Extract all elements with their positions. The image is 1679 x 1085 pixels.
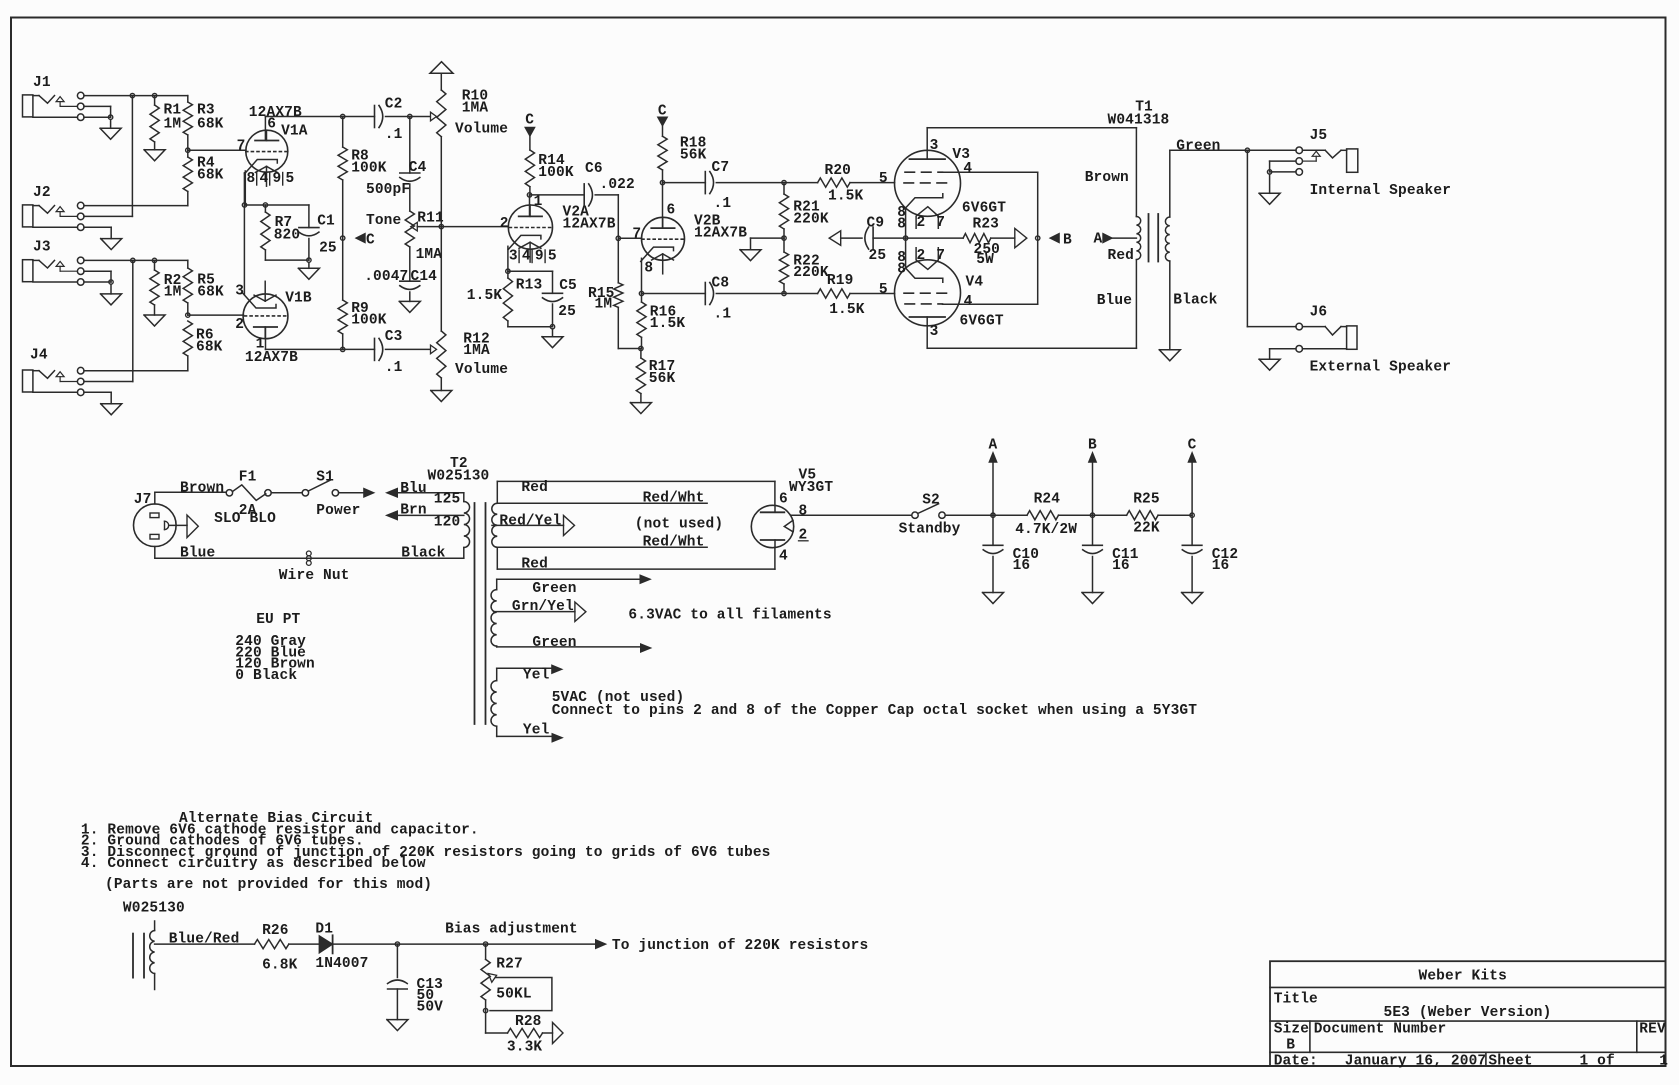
- svg-text:Yel: Yel: [523, 668, 550, 684]
- svg-text:56K: 56K: [680, 148, 707, 164]
- svg-text:.1: .1: [714, 307, 732, 323]
- svg-text:8: 8: [644, 261, 653, 277]
- svg-text:4: 4: [779, 549, 788, 565]
- svg-text:R20: R20: [825, 163, 852, 179]
- svg-text:6.8K: 6.8K: [262, 957, 298, 973]
- svg-text:500pF: 500pF: [366, 182, 410, 198]
- svg-text:3: 3: [930, 324, 939, 340]
- svg-text:16: 16: [1013, 558, 1031, 574]
- svg-text:3: 3: [930, 138, 939, 154]
- svg-text:Blue: Blue: [180, 546, 215, 562]
- svg-text:4: 4: [522, 249, 531, 265]
- svg-text:22K: 22K: [1133, 521, 1160, 537]
- svg-text:100K: 100K: [351, 161, 387, 177]
- svg-text:R19: R19: [827, 273, 854, 289]
- svg-text:2: 2: [500, 216, 509, 232]
- svg-text:(not used): (not used): [635, 516, 723, 532]
- svg-text:Brown: Brown: [1085, 170, 1129, 186]
- svg-text:8: 8: [247, 171, 256, 187]
- svg-text:25: 25: [869, 248, 887, 264]
- svg-text:R23: R23: [973, 217, 1000, 233]
- svg-text:3: 3: [235, 283, 244, 299]
- svg-text:1.5K: 1.5K: [650, 316, 686, 332]
- svg-text:3.3K: 3.3K: [507, 1039, 543, 1055]
- svg-text:Document Number: Document Number: [1314, 1022, 1447, 1038]
- svg-text:7: 7: [237, 138, 246, 154]
- svg-text:B: B: [1063, 232, 1072, 248]
- svg-text:Black: Black: [401, 546, 445, 562]
- svg-text:J7: J7: [134, 492, 152, 508]
- svg-text:12AX7B: 12AX7B: [245, 350, 298, 366]
- svg-text:SLO BLO: SLO BLO: [214, 511, 276, 527]
- svg-text:5W: 5W: [976, 252, 994, 268]
- svg-text:4: 4: [963, 161, 972, 177]
- svg-text:1MA: 1MA: [463, 343, 490, 359]
- svg-text:C: C: [525, 112, 534, 128]
- svg-text:1.5K: 1.5K: [829, 302, 865, 318]
- svg-text:Size: Size: [1274, 1022, 1309, 1038]
- svg-text:100K: 100K: [538, 165, 574, 181]
- svg-text:1M: 1M: [164, 117, 182, 133]
- svg-text:6: 6: [779, 492, 788, 508]
- svg-text:C9: C9: [867, 216, 885, 232]
- svg-text:1: 1: [534, 194, 543, 210]
- svg-text:1MA: 1MA: [416, 247, 443, 263]
- svg-text:V1A: V1A: [281, 124, 308, 140]
- svg-text:1MA: 1MA: [462, 100, 489, 116]
- svg-text:9: 9: [273, 171, 282, 187]
- svg-text:Red: Red: [521, 480, 548, 496]
- svg-text:R28: R28: [515, 1014, 542, 1030]
- svg-text:100K: 100K: [351, 313, 387, 329]
- svg-text:Brown: Brown: [180, 481, 224, 497]
- svg-text:J5: J5: [1310, 128, 1328, 144]
- svg-text:.1: .1: [714, 196, 732, 212]
- svg-text:9: 9: [535, 249, 544, 265]
- svg-text:25: 25: [558, 304, 576, 320]
- svg-text:7: 7: [936, 215, 945, 231]
- svg-text:1: 1: [1659, 1054, 1668, 1070]
- svg-text:6V6GT: 6V6GT: [962, 200, 1006, 216]
- svg-text:January 16, 2007: January 16, 2007: [1345, 1054, 1486, 1070]
- svg-text:1N4007: 1N4007: [315, 956, 368, 972]
- svg-text:16: 16: [1112, 558, 1130, 574]
- svg-text:Red/Yel: Red/Yel: [499, 514, 561, 530]
- svg-text:Power: Power: [316, 503, 360, 519]
- svg-text:Green: Green: [532, 581, 576, 597]
- svg-text:W025130: W025130: [123, 901, 185, 917]
- svg-text:Yel: Yel: [523, 723, 550, 739]
- svg-text:5: 5: [879, 282, 888, 298]
- svg-text:12AX7B: 12AX7B: [563, 216, 616, 232]
- svg-text:1.5K: 1.5K: [828, 188, 864, 204]
- svg-text:J1: J1: [33, 75, 51, 91]
- svg-text:5: 5: [548, 249, 557, 265]
- svg-text:.1: .1: [385, 127, 403, 143]
- svg-text:C3: C3: [385, 329, 403, 345]
- svg-text:2: 2: [235, 317, 244, 333]
- svg-text:8: 8: [897, 261, 906, 277]
- svg-text:1M: 1M: [164, 285, 182, 301]
- svg-text:7: 7: [632, 226, 641, 242]
- svg-text:50V: 50V: [417, 1000, 444, 1016]
- svg-text:68K: 68K: [197, 117, 224, 133]
- svg-text:Blue: Blue: [1097, 293, 1132, 309]
- svg-text:Volume: Volume: [455, 121, 508, 137]
- svg-text:Bias adjustment: Bias adjustment: [445, 922, 578, 938]
- svg-text:3: 3: [509, 249, 518, 265]
- svg-text:C5: C5: [559, 278, 577, 294]
- svg-text:.022: .022: [600, 177, 635, 193]
- svg-text:8: 8: [799, 503, 808, 519]
- svg-text:1.5K: 1.5K: [467, 288, 503, 304]
- svg-text:EU PT: EU PT: [256, 612, 300, 628]
- svg-text:4: 4: [964, 294, 973, 310]
- svg-text:R13: R13: [516, 277, 543, 293]
- svg-text:B: B: [1088, 437, 1097, 453]
- svg-text:J3: J3: [33, 240, 51, 256]
- svg-text:A: A: [1094, 231, 1103, 247]
- svg-text:C1: C1: [317, 214, 335, 230]
- svg-text:Wire Nut: Wire Nut: [279, 568, 350, 584]
- svg-text:J6: J6: [1310, 304, 1328, 320]
- svg-text:C: C: [1188, 437, 1197, 453]
- svg-text:R26: R26: [262, 923, 289, 939]
- svg-text:4.7K/2W: 4.7K/2W: [1015, 522, 1077, 538]
- svg-text:C14: C14: [411, 269, 438, 285]
- svg-text:56K: 56K: [649, 371, 676, 387]
- svg-text:C8: C8: [712, 275, 730, 291]
- svg-text:68K: 68K: [197, 167, 224, 183]
- svg-text:.1: .1: [385, 360, 403, 376]
- svg-text:7: 7: [936, 248, 945, 264]
- svg-text:.0047: .0047: [364, 269, 408, 285]
- svg-text:Title: Title: [1274, 992, 1318, 1008]
- svg-text:6V6GT: 6V6GT: [960, 314, 1004, 330]
- svg-text:Weber Kits: Weber Kits: [1419, 969, 1507, 985]
- svg-text:125: 125: [434, 492, 461, 508]
- svg-text:R27: R27: [496, 956, 523, 972]
- svg-text:Green: Green: [1176, 138, 1220, 154]
- svg-text:REV: REV: [1639, 1022, 1666, 1038]
- svg-text:1M: 1M: [595, 297, 613, 313]
- svg-text:J4: J4: [30, 348, 48, 364]
- svg-text:0 Black: 0 Black: [235, 668, 297, 684]
- svg-text:4: 4: [260, 171, 269, 187]
- svg-text:V4: V4: [966, 274, 984, 290]
- svg-text:5: 5: [286, 171, 295, 187]
- svg-text:C7: C7: [712, 160, 730, 176]
- svg-text:C4: C4: [409, 160, 427, 176]
- svg-text:50KL: 50KL: [496, 987, 531, 1003]
- svg-text:68K: 68K: [197, 285, 224, 301]
- svg-text:16: 16: [1212, 558, 1230, 574]
- svg-text:J2: J2: [33, 185, 51, 201]
- svg-text:R25: R25: [1133, 492, 1160, 508]
- svg-text:D1: D1: [315, 922, 333, 938]
- svg-text:A: A: [989, 437, 998, 453]
- svg-text:Red: Red: [521, 556, 548, 572]
- svg-text:220K: 220K: [793, 211, 829, 227]
- svg-text:5: 5: [879, 171, 888, 187]
- svg-text:Black: Black: [1173, 293, 1217, 309]
- svg-text:External Speaker: External Speaker: [1310, 359, 1451, 375]
- svg-text:Red/Wht: Red/Wht: [643, 491, 705, 507]
- svg-text:To junction of 220K resistors: To junction of 220K resistors: [612, 938, 868, 954]
- svg-text:W041318: W041318: [1108, 112, 1170, 128]
- svg-text:2: 2: [917, 248, 926, 264]
- svg-text:Connect to pins 2 and 8 of the: Connect to pins 2 and 8 of the Copper Ca…: [552, 703, 1198, 719]
- svg-text:Tone: Tone: [366, 213, 401, 229]
- svg-text:1 of: 1 of: [1580, 1054, 1615, 1070]
- svg-text:C2: C2: [385, 97, 403, 113]
- svg-text:B: B: [1286, 1038, 1295, 1054]
- svg-text:2: 2: [917, 215, 926, 231]
- svg-text:Blu: Blu: [400, 481, 427, 497]
- svg-text:4. Connect circuitry as descri: 4. Connect circuitry as described below: [81, 856, 426, 872]
- svg-text:Red/Wht: Red/Wht: [643, 535, 705, 551]
- svg-text:Red: Red: [1108, 248, 1135, 264]
- svg-text:C: C: [366, 232, 375, 248]
- svg-text:Brn: Brn: [400, 503, 427, 519]
- svg-text:Green: Green: [532, 635, 576, 651]
- svg-text:Volume: Volume: [455, 362, 508, 378]
- svg-text:S2: S2: [922, 492, 940, 508]
- svg-text:W025130: W025130: [428, 469, 490, 485]
- svg-text:R24: R24: [1034, 492, 1061, 508]
- svg-text:6: 6: [267, 117, 276, 133]
- svg-text:120: 120: [434, 514, 461, 530]
- svg-text:220K: 220K: [793, 265, 829, 281]
- svg-text:8: 8: [897, 216, 906, 232]
- svg-text:Date:: Date:: [1274, 1054, 1318, 1070]
- svg-text:12AX7B: 12AX7B: [694, 226, 747, 242]
- svg-text:Blue/Red: Blue/Red: [169, 932, 240, 948]
- svg-text:V1B: V1B: [285, 291, 312, 307]
- svg-text:5E3 (Weber Version): 5E3 (Weber Version): [1384, 1005, 1552, 1021]
- svg-text:Grn/Yel: Grn/Yel: [512, 599, 574, 615]
- svg-text:WY3GT: WY3GT: [789, 480, 833, 496]
- svg-text:820: 820: [274, 228, 301, 244]
- svg-text:6.3VAC to all filaments: 6.3VAC to all filaments: [628, 608, 831, 624]
- svg-text:(Parts are not provided for th: (Parts are not provided for this mod): [105, 877, 432, 893]
- svg-text:Internal Speaker: Internal Speaker: [1310, 183, 1451, 199]
- svg-text:68K: 68K: [196, 340, 223, 356]
- svg-text:6: 6: [667, 202, 676, 218]
- svg-text:Standby: Standby: [899, 522, 961, 538]
- svg-text:Sheet: Sheet: [1488, 1054, 1532, 1070]
- svg-text:25: 25: [319, 241, 337, 257]
- svg-text:F1: F1: [239, 470, 257, 486]
- svg-text:C6: C6: [585, 161, 603, 177]
